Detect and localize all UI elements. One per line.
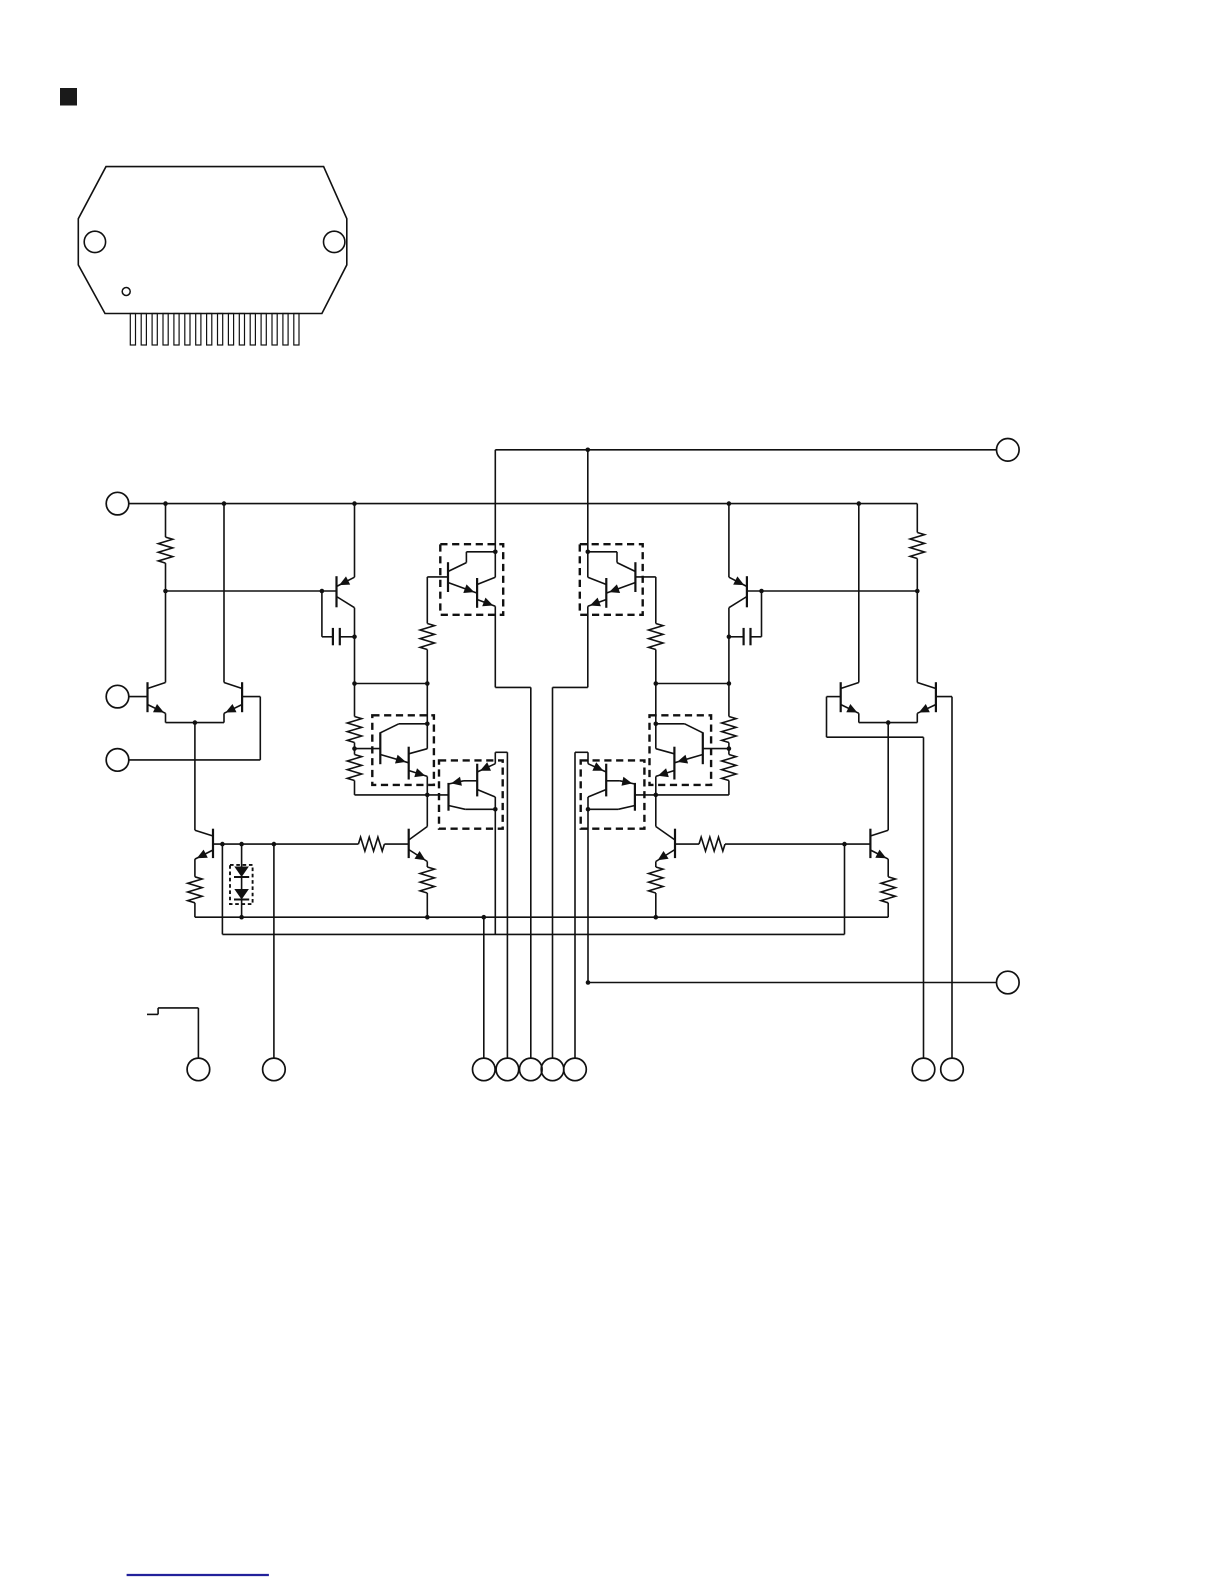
resistor R5 bbox=[347, 684, 361, 751]
resistor R6b bbox=[656, 749, 736, 795]
wire Q4 base route bbox=[936, 697, 952, 1059]
diode D2 bbox=[234, 877, 249, 920]
transistor Q22 bbox=[870, 723, 888, 860]
transistor Q5 bbox=[337, 504, 355, 637]
transistor Q1 bbox=[129, 591, 166, 723]
terminal VCC left bbox=[106, 492, 129, 515]
transistor Q21 bbox=[656, 795, 699, 862]
wire Q3 base route bbox=[827, 697, 924, 1059]
transistor Q9 bbox=[586, 550, 656, 594]
resistor R6 bbox=[347, 749, 427, 795]
terminal VCC right bbox=[997, 439, 1020, 462]
wire to pin circle 2 bbox=[273, 844, 275, 1058]
transistor Q4 bbox=[917, 591, 936, 723]
wire collector link left bbox=[352, 637, 427, 686]
wire R3b bottom to box bbox=[655, 684, 657, 724]
terminal pin c1 bbox=[187, 1058, 210, 1081]
resistor R1 bbox=[158, 504, 172, 594]
transistor Q2 bbox=[224, 504, 242, 723]
transistor Q6 bbox=[729, 504, 747, 637]
wire top rail bbox=[495, 448, 996, 552]
transistor Q17 bbox=[575, 752, 620, 1058]
resistor R3b bbox=[649, 577, 663, 686]
terminal OUT right bbox=[997, 971, 1020, 994]
resistor R11 bbox=[881, 859, 895, 917]
darlington U1 box bbox=[440, 544, 503, 615]
darlington U2 box bbox=[580, 544, 643, 615]
footer rule bbox=[127, 1574, 269, 1576]
darlington U6 box bbox=[581, 760, 645, 828]
wire diff emitters left bbox=[166, 720, 225, 725]
transistor Q16 bbox=[427, 777, 495, 811]
resistor R9 bbox=[699, 837, 870, 851]
diode box bbox=[230, 865, 253, 904]
wire bus VEE bbox=[195, 915, 888, 920]
transistor Q15 bbox=[464, 752, 508, 1058]
terminal pin c3 bbox=[473, 1058, 496, 1081]
wire R3 bottom to box bbox=[426, 684, 428, 724]
terminal pin c6 bbox=[541, 1058, 564, 1081]
chassis tab bbox=[147, 1008, 198, 1058]
package pins bbox=[130, 314, 299, 346]
mounting hole left bbox=[84, 231, 105, 252]
transistor Q19 bbox=[195, 723, 359, 860]
transistor Q3 bbox=[827, 504, 859, 723]
darlington U5 box bbox=[439, 760, 503, 828]
transistor Q8 bbox=[477, 552, 495, 688]
mounting hole right bbox=[324, 231, 345, 252]
resistor R7 bbox=[358, 837, 408, 851]
darlington U4 box bbox=[650, 715, 712, 785]
transistor Q18 bbox=[588, 777, 656, 811]
transistor Q7 bbox=[427, 550, 497, 594]
terminal pin c8 bbox=[912, 1058, 935, 1081]
wire diff emitters right bbox=[859, 720, 918, 725]
pin 1 index hole bbox=[122, 288, 130, 296]
wire Q2 base to IN1- bbox=[129, 697, 260, 760]
wire bias bus bbox=[222, 844, 844, 934]
resistor R3 bbox=[420, 577, 434, 686]
transistor Q14 bbox=[654, 724, 675, 797]
terminal IN1- bbox=[106, 749, 129, 772]
resistor R10 bbox=[649, 862, 663, 918]
wire output right bbox=[586, 980, 997, 985]
transistor Q11 bbox=[355, 722, 430, 765]
diode D1 bbox=[234, 844, 249, 877]
transistor Q12 bbox=[409, 724, 430, 797]
wire node A right bbox=[747, 589, 917, 594]
resistor R8 bbox=[188, 859, 202, 917]
terminal pin c7 bbox=[564, 1058, 587, 1081]
terminal pin c4 bbox=[496, 1058, 519, 1081]
wire node A left bbox=[166, 589, 337, 594]
capacitor C2 bbox=[727, 591, 762, 645]
terminal pin c2 bbox=[263, 1058, 286, 1081]
section marker square bbox=[60, 88, 77, 106]
darlington U3 box bbox=[372, 715, 434, 785]
wire collector link right bbox=[656, 637, 731, 686]
resistor R4 bbox=[420, 862, 434, 920]
terminal pin c5 bbox=[520, 1058, 543, 1081]
resistor R2 bbox=[910, 504, 924, 594]
package outline bbox=[78, 167, 347, 314]
terminal pin c9 bbox=[941, 1058, 964, 1081]
wire VCC rail bbox=[129, 503, 918, 505]
terminal IN1+ bbox=[106, 685, 129, 708]
wire U1 emitter jog bbox=[495, 687, 531, 1058]
transistor Q20 bbox=[409, 795, 428, 862]
wire to pin circle 1 bbox=[483, 917, 485, 1058]
capacitor C1 bbox=[322, 591, 357, 645]
node rail junctions bbox=[163, 501, 861, 506]
transistor Q13 bbox=[654, 722, 729, 765]
transistor Q10 bbox=[588, 552, 607, 688]
resistor R5b bbox=[722, 684, 736, 751]
wire U2 emitter jog bbox=[553, 687, 588, 1058]
